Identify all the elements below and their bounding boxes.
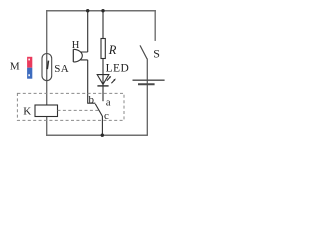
mechanical link (dashed) bbox=[58, 109, 99, 111]
svg-text:LED: LED bbox=[106, 63, 130, 75]
relay armature arm b to c bbox=[95, 104, 102, 117]
wire contact c to bottom wire bbox=[101, 116, 103, 135]
node junction dot H branch bbox=[86, 9, 89, 12]
svg-text:c: c bbox=[104, 110, 109, 122]
wire H branch lower to contact b bbox=[88, 60, 96, 103]
node junction dot R branch bbox=[101, 9, 104, 12]
battery positive plate bbox=[133, 79, 165, 81]
svg-text:M: M bbox=[10, 61, 20, 73]
wire bottom bbox=[46, 134, 148, 136]
wire right lower (switch pivot through battery to bottom wire) bbox=[146, 59, 148, 136]
wire R branch to LED and contact a bbox=[102, 59, 104, 102]
wire H branch upper bbox=[87, 11, 89, 52]
buzzer H bbox=[73, 49, 87, 62]
svg-text:K: K bbox=[23, 106, 31, 118]
LED cathode bar bbox=[97, 85, 108, 87]
wire left lower (coil K bottom to bottom wire) bbox=[46, 117, 48, 136]
reed switch SA contact bbox=[47, 61, 48, 70]
magnet pole letter N bbox=[28, 59, 30, 61]
svg-text:S: S bbox=[153, 47, 160, 61]
node junction dot c on bottom wire bbox=[101, 134, 104, 137]
battery negative plate bbox=[138, 83, 155, 85]
svg-text:R: R bbox=[108, 43, 117, 57]
relay dashed box bbox=[17, 93, 124, 120]
svg-text:SA: SA bbox=[54, 63, 69, 75]
wire R branch upper bbox=[102, 11, 104, 39]
wire right upper (top corner to switch S) bbox=[154, 10, 156, 41]
resistor R bbox=[101, 39, 105, 59]
svg-text:H: H bbox=[72, 40, 80, 51]
magnet M (red N half) bbox=[27, 57, 32, 68]
LED diode triangle bbox=[97, 75, 109, 85]
svg-text:b: b bbox=[89, 94, 95, 106]
switch S arm bbox=[140, 45, 147, 59]
svg-text:a: a bbox=[106, 98, 111, 109]
magnet M (blue S half) bbox=[27, 68, 32, 79]
wire left (x=46.7, top corner to coil K top) bbox=[46, 10, 48, 105]
relay coil K bbox=[35, 105, 58, 117]
LED emission arrows bbox=[107, 77, 115, 83]
magnet pole letter S bbox=[28, 74, 30, 76]
reed switch SA glass capsule bbox=[42, 54, 52, 81]
wire top bbox=[47, 10, 156, 12]
